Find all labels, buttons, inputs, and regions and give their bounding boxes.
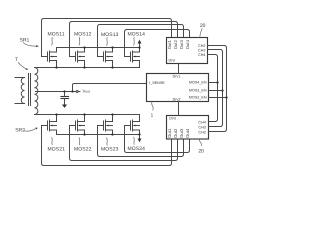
svg-text:Out3: Out3 (179, 128, 184, 138)
svg-text:CH3: CH3 (198, 125, 205, 129)
junction dot MOS2_EN (225, 96, 227, 98)
wire: top source rail (secondary top tap) (35, 67, 140, 69)
svg-text:Drv1: Drv1 (173, 75, 181, 79)
svg-text:20: 20 (200, 23, 206, 29)
transformer T secondary winding (35, 68, 38, 115)
svg-text:MOS12: MOS12 (74, 32, 92, 38)
driver block 20 (bottom) (167, 116, 209, 140)
arrow terminal on bottom drain rail (139, 135, 141, 139)
wire: gate loop Out3 to MOS13 (98, 25, 184, 57)
transistor MOS24 (125, 115, 140, 135)
driver block 20 (top) (167, 38, 208, 64)
svg-text:1: 1 (151, 113, 154, 118)
svg-text:T: T (15, 57, 18, 63)
wire: gate loop Out1 to MOS11 (42, 19, 172, 57)
svg-text:CH2: CH2 (198, 44, 205, 48)
wire: gate loop Out3 to MOS23 (98, 126, 184, 157)
wire: CH3 bus (middle) (208, 50, 223, 127)
arrow terminal on top drain rail (139, 44, 141, 48)
svg-text:MOS11: MOS11 (48, 32, 65, 38)
transistor MOS14 (125, 48, 140, 68)
wire: gate loop Out4 to MOS14 (125, 30, 190, 57)
svg-text:DrvI: DrvI (169, 116, 176, 120)
svg-text:Out4: Out4 (185, 128, 190, 138)
transistor MOS13 (98, 48, 113, 68)
transformer T core (29, 74, 31, 106)
svg-text:MOS13: MOS13 (101, 32, 119, 38)
transistor MOS23 (98, 115, 113, 135)
wire: MOS4_EN stub (209, 82, 218, 84)
wire: CH4 bus (inner) (208, 55, 218, 122)
svg-text:Drv2: Drv2 (173, 98, 181, 102)
svg-text:DrvI: DrvI (169, 59, 176, 63)
svg-text:Out1: Out1 (167, 128, 172, 138)
svg-text:MOS4_EN: MOS4_EN (189, 81, 207, 85)
junction dots bottom drain rail (83, 133, 85, 135)
svg-text:Out2: Out2 (173, 128, 178, 138)
wire: CH2 bus (outer) (208, 46, 227, 132)
junction dot capacitor node (63, 90, 65, 92)
svg-text:MOS14: MOS14 (128, 32, 146, 38)
wire: center tap to Vout (36, 91, 77, 93)
leader arrow for T (18, 62, 26, 69)
junction dot MOS3_EN (221, 89, 223, 91)
svg-text:MOS22: MOS22 (74, 146, 92, 152)
leader arrow for SR1 (23, 43, 37, 47)
wire: gate loop Out4 to MOS24 (125, 126, 190, 153)
ground symbol (62, 105, 67, 108)
junction dots top source rail (55, 66, 57, 68)
svg-text:Out3: Out3 (179, 39, 184, 49)
capacitor C (64, 92, 66, 97)
junction dots top drain rail (83, 46, 85, 48)
transistor MOS21 (42, 115, 57, 135)
wire: top drain rail SR1 (57, 47, 140, 49)
svg-text:20: 20 (198, 149, 204, 155)
svg-text:MOS2_EN: MOS2_EN (189, 96, 207, 100)
svg-text:MOS3_EN: MOS3_EN (189, 89, 207, 93)
svg-text:MOS23: MOS23 (101, 147, 119, 153)
svg-text:SR2: SR2 (15, 127, 25, 133)
junction dot I_SENSE branch (71, 90, 73, 92)
transistor MOS12 (70, 48, 85, 68)
wire: Vout node to I_SENSE input (73, 84, 147, 92)
wire: gate loop Out2 to MOS12 (70, 22, 178, 57)
transistor MOS22 (70, 115, 85, 135)
terminal Vout circle (76, 91, 78, 93)
svg-text:Out1: Out1 (167, 39, 172, 49)
svg-text:Vout: Vout (83, 89, 90, 94)
wire: MOS2_EN stub (209, 97, 227, 99)
wire: Drv2 controller to bottom block (178, 102, 180, 116)
transformer T primary winding (15, 78, 25, 104)
transistor MOS11 (42, 48, 57, 68)
wire: bottom source rail (secondary bottom tap) (35, 114, 140, 116)
wire: gate loop Out2 to MOS22 (70, 126, 178, 161)
wire: MOS3_EN stub (209, 90, 223, 92)
svg-text:CH2: CH2 (198, 130, 205, 134)
leader arrow for SR2 (24, 129, 36, 131)
wire: Drv1 top block to controller (178, 64, 180, 74)
svg-text:CH4: CH4 (198, 53, 205, 57)
svg-text:Out4: Out4 (185, 39, 190, 49)
svg-text:I_SENSE: I_SENSE (149, 81, 165, 85)
controller block 1 (147, 74, 209, 102)
svg-text:MOS21: MOS21 (48, 146, 66, 152)
junction dot MOS4_EN (216, 81, 218, 83)
svg-text:MOS24: MOS24 (128, 146, 146, 152)
svg-text:CH3: CH3 (198, 49, 205, 53)
svg-text:SR1: SR1 (20, 37, 30, 43)
wire: gate loop Out1 to MOS21 (42, 126, 172, 166)
junction dots bottom source rail (55, 113, 57, 115)
svg-text:Out2: Out2 (173, 39, 178, 49)
svg-text:CH4: CH4 (198, 120, 205, 124)
wire: bottom drain rail SR2 (57, 134, 140, 136)
